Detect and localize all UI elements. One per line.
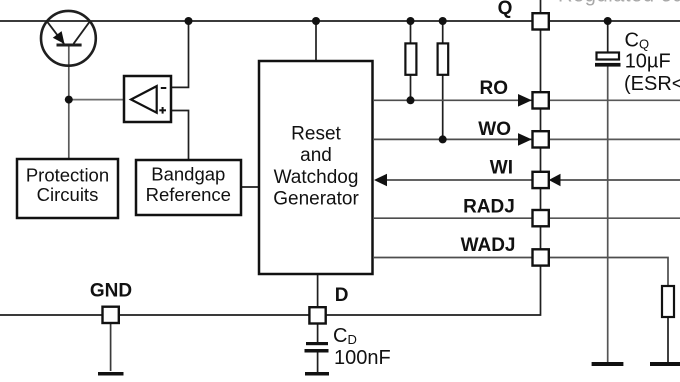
- svg-text:WI: WI: [490, 158, 513, 179]
- svg-text:RO: RO: [480, 78, 509, 99]
- svg-text:Watchdog: Watchdog: [274, 167, 359, 188]
- svg-text:Generator: Generator: [273, 189, 359, 210]
- svg-text:GND: GND: [90, 280, 132, 301]
- svg-text:Regulated output: Regulated output: [558, 0, 680, 7]
- svg-text:(ESR<: (ESR<: [624, 73, 680, 95]
- svg-text:WADJ: WADJ: [461, 235, 516, 256]
- svg-text:and: and: [300, 145, 332, 166]
- svg-text:Reference: Reference: [146, 184, 231, 205]
- svg-text:100nF: 100nF: [334, 347, 391, 369]
- svg-text:WO: WO: [478, 119, 511, 140]
- svg-text:Q: Q: [498, 0, 513, 19]
- svg-text:Protection: Protection: [26, 164, 109, 185]
- svg-text:Bandgap: Bandgap: [151, 164, 225, 185]
- svg-text:RADJ: RADJ: [463, 197, 515, 218]
- svg-text:Circuits: Circuits: [37, 184, 99, 205]
- svg-text:D: D: [335, 285, 349, 306]
- svg-text:10µF: 10µF: [625, 51, 671, 73]
- svg-text:Reset: Reset: [291, 124, 341, 145]
